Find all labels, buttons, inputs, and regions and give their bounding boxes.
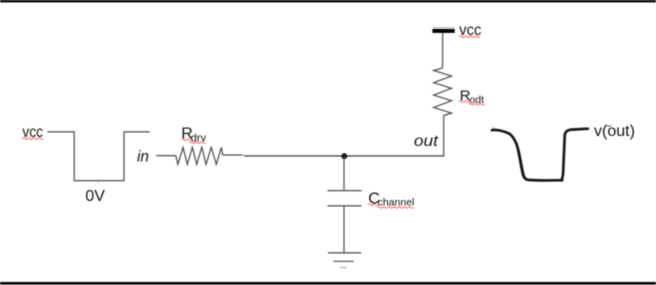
svg-text:in: in	[137, 149, 149, 166]
label v(out)	[594, 123, 635, 140]
resistor R_odt	[434, 68, 452, 116]
resistor R_drv	[176, 147, 223, 164]
svg-text:0V: 0V	[85, 188, 105, 205]
ground	[328, 253, 361, 268]
svg-text:out: out	[414, 133, 439, 150]
wire C_channel to ground	[343, 206, 345, 253]
wire gap to out corner	[244, 155, 444, 157]
wire node down to C_channel	[343, 157, 345, 191]
top border rule	[0, 0, 656, 2]
bottom border rule	[0, 282, 656, 285]
label R_drv	[181, 126, 206, 145]
junction node dot	[341, 153, 347, 159]
node out label	[414, 133, 439, 150]
svg-text:v(out): v(out)	[594, 123, 635, 140]
capacitor C_channel plates	[328, 191, 362, 206]
label R_odt	[459, 87, 485, 106]
label 0V	[85, 188, 105, 205]
VCC power bar	[432, 27, 454, 33]
wire in to R_drv	[156, 155, 176, 157]
label vcc (top rail)	[459, 22, 481, 39]
label vcc (input source)	[22, 124, 43, 141]
wire R_odt to VCC bar	[442, 33, 444, 68]
wire out up to R_odt	[443, 116, 445, 156]
input pulse waveform (vcc to 0V step)	[47, 132, 149, 183]
label C_channel	[368, 190, 414, 208]
wire R_drv to gap	[223, 154, 243, 156]
svg-text:drv: drv	[191, 133, 207, 145]
node in label	[137, 149, 149, 166]
v(out) hand-drawn waveform	[492, 128, 588, 181]
